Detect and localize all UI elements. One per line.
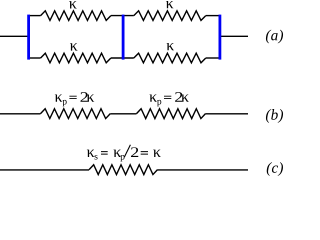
- wire right terminal (a): [220, 35, 248, 37]
- panel label (b): [266, 109, 271, 123]
- wire left lead (c): [0, 169, 89, 171]
- wire bottom-right branch lead (a): [206, 57, 220, 59]
- value label kappa top-right (a): [166, 1, 174, 8]
- value label kappa_p = 2 kappa, first resistor (b): [55, 92, 94, 106]
- wire right lead (b): [206, 113, 249, 115]
- wire left terminal (a): [0, 35, 29, 37]
- wire middle lead (b): [110, 113, 136, 115]
- value label kappa bottom-left (a): [70, 43, 78, 50]
- value label kappa bottom-right (a): [167, 43, 175, 50]
- wire top-right branch lead (a): [206, 15, 220, 17]
- resistor kappa bottom-right (a): [134, 53, 206, 63]
- node bar right (a): [218, 15, 221, 60]
- value label kappa_s = kappa_p/2 = kappa (c): [87, 145, 161, 162]
- wire bottom-middle lead (a): [111, 57, 134, 59]
- resistor kappa top-left (a): [41, 11, 111, 21]
- panel label (a): [266, 30, 271, 44]
- panel label (c): [267, 162, 272, 176]
- value label kappa_p = 2 kappa, second resistor (b): [149, 92, 188, 106]
- resistor kappa top-right (a): [134, 11, 206, 21]
- resistor kappa bottom-left (a): [41, 53, 111, 63]
- wire left lead (b): [0, 113, 41, 115]
- resistor kappa_p second (b): [137, 109, 206, 119]
- wire bottom-left branch lead (a): [29, 57, 41, 59]
- value label kappa top-left (a): [69, 1, 77, 8]
- wire right lead (c): [158, 169, 249, 171]
- wire top-left branch lead (a): [29, 15, 41, 17]
- node bar left (a): [27, 15, 30, 60]
- wire top-middle lead (a): [111, 15, 134, 17]
- resistor kappa_p first (b): [41, 109, 111, 119]
- resistor kappa_s (c): [89, 165, 157, 175]
- node bar middle (a): [122, 15, 125, 60]
